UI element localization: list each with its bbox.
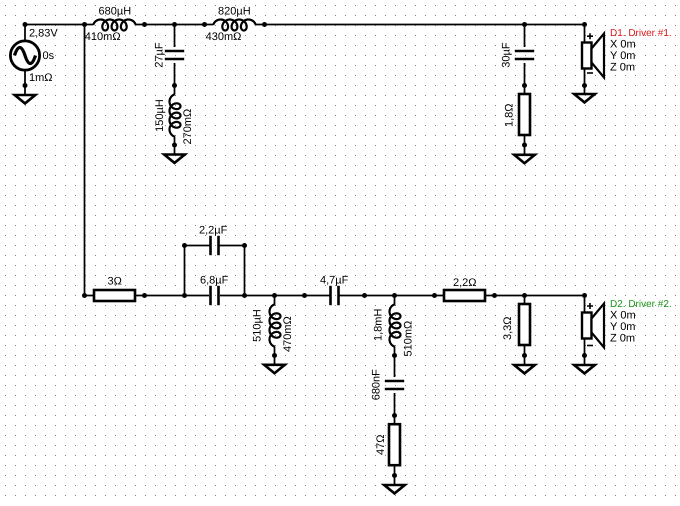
driver D1 speaker symbol — [582, 34, 604, 78]
label 680nF — [371, 369, 383, 400]
wire lower rail seg5 — [485, 295, 585, 297]
svg-text:430mΩ: 430mΩ — [206, 31, 242, 43]
label 150µH — [154, 99, 166, 132]
wire ground stem D2 — [584, 356, 586, 366]
svg-text:410mΩ: 410mΩ — [85, 31, 121, 43]
node L4 ground — [272, 353, 277, 358]
node between C6 and R4 — [392, 413, 397, 418]
svg-text:1,8Ω: 1,8Ω — [504, 103, 516, 127]
wire C2 to node — [524, 63, 526, 86]
svg-text:X 0m: X 0m — [610, 39, 636, 51]
node 3,3Ω branch — [522, 293, 527, 298]
node L3 ground — [172, 143, 177, 148]
wire node to R4 — [394, 416, 396, 425]
wire 510µH branch upper — [274, 296, 276, 306]
label 2,2µF — [199, 224, 228, 236]
node D2 ground — [582, 353, 587, 358]
label 410mΩ — [85, 31, 121, 43]
wire ground stem L3 — [174, 145, 176, 155]
resistor R2 1,8Ω — [519, 94, 530, 135]
ground below L3 — [164, 155, 185, 163]
node A top-left junction — [82, 22, 87, 27]
minus mark D2 — [587, 345, 593, 347]
node before R3 — [432, 293, 437, 298]
node source ground — [23, 83, 28, 88]
wire 27µF to node — [174, 63, 176, 86]
node after R1 — [142, 293, 147, 298]
minus mark D1 — [587, 72, 593, 74]
label D1 X 0m — [610, 39, 636, 51]
node D1 ground — [582, 83, 587, 88]
wire D1 branch upper — [584, 25, 586, 43]
svg-text:X 0m: X 0m — [610, 310, 636, 322]
wire ground stem R5 — [524, 356, 526, 366]
node parallel caps right — [242, 293, 247, 298]
label 470mΩ — [282, 316, 294, 352]
svg-text:Z 0m: Z 0m — [610, 62, 635, 74]
node after L2 — [262, 22, 267, 27]
resistor R3 2,2Ω — [444, 290, 485, 301]
wire node to C6 — [394, 356, 396, 378]
label D1 Z 0m — [610, 62, 635, 74]
node R5 ground — [522, 353, 527, 358]
wire lower rail seg1 — [85, 295, 95, 297]
node 2,2µF left — [182, 243, 187, 248]
label 3Ω — [108, 276, 122, 288]
svg-text:150µH: 150µH — [154, 99, 166, 132]
wire R5 to ground node — [524, 345, 526, 356]
ground below source — [15, 95, 36, 103]
node before L2 — [202, 22, 207, 27]
node 30µF branch — [522, 22, 527, 27]
node D2 branch — [582, 293, 587, 298]
svg-text:510µH: 510µH — [252, 309, 264, 342]
label D2 X 0m — [610, 310, 636, 322]
svg-text:D1. Driver #1.: D1. Driver #1. — [610, 28, 672, 39]
node 510µH branch — [272, 293, 277, 298]
svg-text:470mΩ: 470mΩ — [282, 316, 294, 352]
node after C5 — [362, 293, 367, 298]
node 27µF branch — [172, 22, 177, 27]
wire source bottom — [24, 70, 26, 86]
svg-text:3,3Ω: 3,3Ω — [502, 316, 514, 340]
plus mark D1 — [587, 33, 593, 39]
wire top rail left — [25, 24, 94, 26]
svg-text:680nF: 680nF — [371, 369, 383, 400]
label D1 Driver — [610, 28, 672, 39]
svg-text:27µF: 27µF — [154, 42, 166, 68]
svg-text:47Ω: 47Ω — [375, 435, 387, 455]
label 270mΩ — [182, 109, 194, 145]
svg-text:2,83V: 2,83V — [29, 27, 58, 39]
wire ground stem V1 — [24, 86, 26, 96]
wire coil L3 to ground node — [174, 137, 176, 146]
ground below D1 — [574, 94, 595, 102]
label 3,3Ω — [502, 316, 514, 340]
label 6,8µF — [200, 275, 229, 287]
node after parallel block — [302, 293, 307, 298]
svg-text:Y 0m: Y 0m — [610, 321, 635, 333]
capacitor C6 680nF — [385, 381, 404, 389]
label 27µF — [154, 42, 166, 68]
wire 27µF branch upper — [174, 25, 176, 48]
svg-text:510mΩ: 510mΩ — [403, 321, 415, 357]
wire source top to rail — [24, 25, 26, 42]
node 2,2µF right — [242, 243, 247, 248]
resistor R1 3Ω — [94, 290, 135, 301]
svg-text:1mΩ: 1mΩ — [29, 72, 53, 84]
wire 1,8mH branch upper — [394, 296, 396, 306]
svg-text:Z 0m: Z 0m — [610, 333, 635, 345]
capacitor C2 30µF — [515, 51, 534, 59]
node lower rail left — [82, 293, 87, 298]
wire L5 to node — [394, 347, 396, 356]
wire node to coil L3 — [174, 86, 176, 95]
plus mark D2 — [587, 303, 593, 309]
wire 30µF branch upper — [524, 25, 526, 48]
label 2,83V — [29, 27, 58, 39]
wire D2 branch upper — [584, 296, 586, 313]
node after R3 — [492, 293, 497, 298]
node between C1 and L3 — [172, 83, 177, 88]
svg-text:820µH: 820µH — [218, 5, 251, 17]
wire top rail right — [256, 24, 585, 26]
node R4 ground — [392, 473, 397, 478]
inductor L3 150µH — [170, 94, 181, 137]
resistor R4 47Ω — [389, 424, 400, 465]
wire rail between coils — [136, 24, 214, 26]
label 1,8Ω — [504, 103, 516, 127]
wire D1 bottom — [584, 69, 586, 86]
svg-text:4,7µF: 4,7µF — [320, 275, 349, 287]
label 510mΩ — [403, 321, 415, 357]
label 680µH — [99, 5, 132, 17]
wire ground stem R2 — [524, 145, 526, 155]
label 430mΩ — [206, 31, 242, 43]
wire L4 to ground node — [274, 347, 276, 356]
wire parallel branch right — [244, 246, 246, 296]
svg-text:30µF: 30µF — [501, 42, 513, 68]
ground below R2 — [514, 155, 535, 163]
wire C6 to node — [394, 393, 396, 416]
capacitor C3 2,2µF — [211, 236, 219, 255]
node D1 branch — [582, 22, 587, 27]
wire 2,2µF branch right seg — [219, 245, 245, 247]
svg-text:680µH: 680µH — [99, 5, 132, 17]
label D1 Y 0m — [610, 50, 635, 62]
ground below D2 — [574, 365, 595, 373]
wire parallel branch left — [184, 246, 186, 296]
wire lower rail seg2 — [135, 295, 209, 297]
svg-text:Y 0m: Y 0m — [610, 50, 635, 62]
node parallel caps left — [182, 293, 187, 298]
svg-text:2,2Ω: 2,2Ω — [453, 277, 477, 289]
inductor L4 510µH — [270, 304, 281, 347]
node after L1 — [142, 22, 147, 27]
wire R2 to ground node — [524, 135, 526, 145]
node 1,8mH branch — [392, 293, 397, 298]
svg-text:270mΩ: 270mΩ — [182, 109, 194, 145]
label D2 Z 0m — [610, 333, 635, 345]
label 30µF — [501, 42, 513, 68]
driver D2 speaker symbol — [582, 304, 604, 348]
wire lower rail seg4 — [339, 295, 444, 297]
wire lower rail seg3 — [220, 295, 330, 297]
label D2 Y 0m — [610, 321, 635, 333]
node between C2 and R2 — [522, 83, 527, 88]
capacitor C5 4,7µF — [331, 286, 339, 305]
label 47Ω — [375, 435, 387, 455]
node top rail at source — [23, 22, 28, 27]
inductor L2 820µH — [213, 20, 256, 31]
label 510µH — [252, 309, 264, 342]
svg-text:3Ω: 3Ω — [108, 276, 122, 288]
label 4,7µF — [320, 275, 349, 287]
svg-text:D2. Driver #2.: D2. Driver #2. — [610, 299, 672, 310]
wire R4 to ground node — [394, 465, 396, 476]
wire vertical feed to lower rail — [84, 25, 86, 296]
capacitor C4 6,8µF — [211, 286, 219, 305]
node between L5 and C6 — [392, 353, 397, 358]
inductor L1 680µH — [93, 20, 136, 31]
voltage source V1 sine 2,83V — [10, 41, 39, 70]
wire ground stem R4 — [394, 476, 396, 486]
inductor L5 1,8mH — [390, 304, 401, 347]
node R2 ground — [522, 143, 527, 148]
ground below R5 — [514, 365, 535, 373]
wire ground stem D1 — [584, 86, 586, 95]
wire ground stem L4 — [274, 356, 276, 365]
wire 3,3Ω branch upper — [524, 296, 526, 305]
label D2 Driver — [610, 299, 672, 310]
resistor R5 3,3Ω — [519, 304, 530, 345]
svg-text:6,8µF: 6,8µF — [200, 275, 229, 287]
wire D2 bottom — [584, 339, 586, 356]
wire node to R2 — [524, 86, 526, 95]
ground below R4 — [384, 485, 405, 493]
label 2,2Ω — [453, 277, 477, 289]
ground below L4 — [264, 365, 285, 373]
label 0s — [43, 50, 55, 62]
svg-text:0s: 0s — [43, 50, 55, 62]
svg-text:1,8mH: 1,8mH — [373, 309, 385, 341]
wire 2,2µF branch left seg — [185, 245, 211, 247]
label 1mΩ — [29, 72, 53, 84]
capacitor C1 27µF — [165, 51, 184, 59]
svg-text:2,2µF: 2,2µF — [199, 224, 228, 236]
label 1,8mH — [373, 309, 385, 341]
label 820µH — [218, 5, 251, 17]
